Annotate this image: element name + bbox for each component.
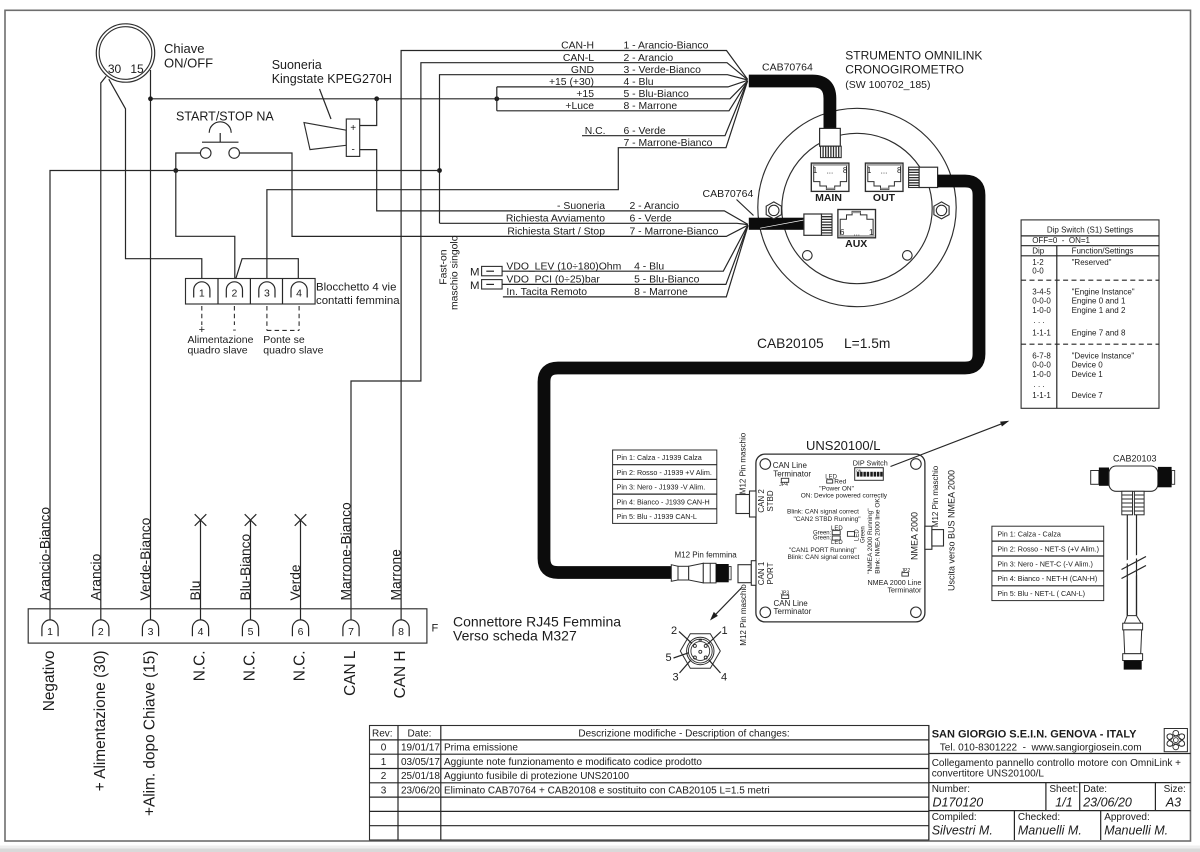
wire VDO_PCI (5 - Blu-Bianco) (502, 225, 748, 284)
svg-text:STRUMENTO OMNILINK: STRUMENTO OMNILINK (845, 49, 982, 63)
label Suoneria Kingstate KPEG270H (272, 58, 392, 86)
svg-text:2 - Arancio: 2 - Arancio (624, 53, 674, 64)
svg-text:VDO_LEV (10÷180)Ohm: VDO_LEV (10÷180)Ohm (506, 261, 621, 272)
dashed bridge pin3-pin4 (267, 329, 299, 331)
svg-text:Descrizione modifiche - Descri: Descrizione modifiche - Description of c… (578, 728, 789, 739)
svg-text:Chiave: Chiave (164, 41, 204, 56)
label CAN Line Terminator bottom (774, 599, 812, 616)
svg-text:Verso scheda M327: Verso scheda M327 (453, 628, 577, 644)
svg-text:2: 2 (381, 771, 387, 782)
svg-text:4: 4 (198, 626, 204, 638)
svg-text:Arancio-Bianco: Arancio-Bianco (38, 507, 53, 601)
wire +15 rail (5 - Blu-Bianco) (151, 81, 748, 99)
svg-text:Terminator: Terminator (887, 586, 922, 595)
svg-text:M12 Pin maschio: M12 Pin maschio (739, 432, 748, 494)
wire buzzer plus to +15 rail (360, 99, 377, 126)
connector pin 2 (93, 620, 109, 638)
cable CAB70764 top (749, 81, 830, 129)
wire key 15 to pin3 (150, 70, 152, 620)
svg-text:1: 1 (199, 288, 205, 300)
svg-text:0-0: 0-0 (1032, 267, 1044, 276)
M12 pin 2 label (671, 625, 692, 644)
dashed lead blocchetto pin2 (233, 306, 235, 325)
svg-text:7 - Marrone-Bianco: 7 - Marrone-Bianco (624, 138, 713, 149)
svg-text:3: 3 (148, 626, 154, 638)
label CAB20105 L=1.5m (757, 336, 890, 351)
svg-text:PORT: PORT (766, 562, 775, 584)
port CAN 2 STBD (736, 491, 756, 517)
screw hole bottom-left (760, 607, 771, 618)
svg-text:N.C.: N.C. (192, 651, 209, 682)
label NMEA 2000 Running rotated (867, 498, 882, 574)
svg-text:Blocchetto 4 vie: Blocchetto 4 vie (316, 282, 396, 294)
fast-on terminal M1 (470, 266, 502, 278)
svg-text:Pin 3: Nero - J1939 -V Alim.: Pin 3: Nero - J1939 -V Alim. (617, 483, 706, 492)
svg-text:quadro slave: quadro slave (263, 345, 323, 357)
svg-text:1-0-0: 1-0-0 (1032, 370, 1051, 379)
svg-text:Engine 1 and 2: Engine 1 and 2 (1072, 306, 1126, 315)
label CAN 2 STBD rotated (757, 489, 775, 513)
svg-text:CAB70764: CAB70764 (703, 188, 754, 200)
M12 pin 3 label (672, 660, 691, 684)
connector pin 7 (343, 620, 359, 638)
svg-text:LED: LED (831, 540, 843, 546)
LED red indicator (825, 475, 846, 486)
svg-text:N.C.: N.C. (242, 651, 259, 682)
svg-text:SAN GIORGIO S.E.I.N. GENOVA -: SAN GIORGIO S.E.I.N. GENOVA - ITALY (932, 729, 1137, 741)
svg-text:CAN L: CAN L (342, 650, 359, 696)
svg-text:. . .: . . . (1034, 316, 1045, 325)
svg-text:JP4: JP4 (779, 482, 788, 488)
svg-text:"Device Instance": "Device Instance" (1072, 352, 1135, 361)
blocchetto pin 4 (291, 282, 307, 300)
svg-text:Number:: Number: (932, 784, 970, 795)
svg-text:Green:: Green: (813, 536, 832, 542)
svg-text:19/01/17: 19/01/17 (401, 743, 440, 754)
connector pin 4 (192, 620, 208, 638)
svg-text:Dip: Dip (1032, 246, 1045, 255)
dashed lead blocchetto pin3 (266, 306, 268, 330)
svg-text:"Reserved": "Reserved" (1072, 258, 1112, 267)
label CAN1 PORT Running (787, 547, 859, 561)
svg-text:AUX: AUX (845, 238, 867, 250)
jumper JP3 (781, 591, 790, 599)
arrow DIP switch to settings table (891, 421, 1010, 467)
wire button left contact to negativo rail (176, 153, 201, 170)
svg-text:6: 6 (840, 228, 845, 237)
wire In. Tacita Remoto (8 - Marrone) (503, 226, 748, 297)
svg-text:Blink: NMEA 2000 line OK: Blink: NMEA 2000 line OK (875, 498, 882, 574)
svg-text:CAN 1: CAN 1 (757, 561, 766, 585)
svg-text:...: ... (827, 167, 834, 176)
connector pin 5 (242, 620, 258, 638)
pin table NET (992, 526, 1104, 600)
jumper JP2 (902, 568, 911, 576)
svg-text:Manuelli M.: Manuelli M. (1104, 824, 1168, 838)
svg-text:L=1.5m: L=1.5m (844, 336, 890, 351)
blocchetto pin 2 (226, 282, 242, 300)
svg-text:"CAN2 STBD Running": "CAN2 STBD Running" (793, 516, 861, 523)
svg-text:Terminator: Terminator (774, 607, 812, 616)
connector pin 6 (292, 620, 308, 638)
svg-text:Uscita verso BUS NMEA 2000: Uscita verso BUS NMEA 2000 (947, 470, 957, 591)
svg-text:7: 7 (348, 626, 354, 638)
svg-text:Rev:: Rev: (372, 728, 393, 739)
svg-text:Richiesta Avviamento: Richiesta Avviamento (506, 213, 605, 224)
svg-text:M: M (470, 267, 480, 279)
svg-text:CAN 2: CAN 2 (757, 489, 766, 513)
svg-text:8 - Marrone: 8 - Marrone (634, 287, 688, 298)
mounting hole bottom-right (903, 251, 913, 261)
svg-text:NMEA 2000: NMEA 2000 (910, 512, 920, 560)
wire N.C. 6 - Verde (582, 81, 748, 136)
wire VDO_LEV (4 - Blu) (502, 225, 748, 271)
leader CAB70764 left label (737, 200, 754, 216)
svg-text:+Alim. dopo Chiave (15): +Alim. dopo Chiave (15) (142, 651, 159, 817)
svg-text:30: 30 (108, 62, 122, 76)
key switch SW1 Chiave ON/OFF (96, 24, 154, 82)
wire N.C. pin4 with X (195, 514, 207, 620)
svg-text:6: 6 (298, 626, 304, 638)
svg-text:M12 Pin femmina: M12 Pin femmina (675, 551, 738, 560)
svg-text:Pin 5: Blu - NET-L ( CAN-L): Pin 5: Blu - NET-L ( CAN-L) (997, 589, 1085, 598)
svg-text:1 - Arancio-Bianco: 1 - Arancio-Bianco (624, 41, 709, 52)
mounting nut right (934, 202, 949, 219)
svg-text:"Engine Instance": "Engine Instance" (1072, 287, 1135, 296)
label Alimentazione quadro slave (188, 334, 254, 357)
wire jumper blocchetto pin2-pin4 (235, 259, 298, 282)
svg-text:Compiled:: Compiled: (932, 812, 977, 823)
wire +Luce tap vertical (496, 87, 498, 111)
jumper JP4 (779, 478, 788, 488)
RJ45 plug right (from OUT) (909, 167, 938, 187)
svg-text:Size:: Size: (1164, 784, 1186, 795)
cable CAB20105 (544, 181, 979, 573)
company logo (1164, 729, 1187, 752)
svg-text:1: 1 (813, 166, 818, 175)
svg-text:5 - Blu-Bianco: 5 - Blu-Bianco (624, 89, 689, 100)
svg-text:Pin 1: Calza - J1939 Calza: Pin 1: Calza - J1939 Calza (617, 453, 702, 462)
cable CAB70764 left (749, 218, 804, 230)
connector pin 3 (142, 620, 158, 638)
svg-text:CAB20105: CAB20105 (757, 336, 824, 351)
wire CAN-L (2 - Arancio) to pin7 (351, 63, 748, 620)
dashed lead blocchetto pin1 (201, 306, 203, 325)
CAB20103 M12 male connector bottom (1123, 616, 1143, 670)
svg-text:- Suoneria: - Suoneria (557, 201, 605, 212)
blocchetto pin 3 (259, 282, 275, 300)
mounting hole bottom-left (803, 251, 813, 261)
svg-text:maschio singolo: maschio singolo (450, 235, 461, 310)
wire +Luce (8 - Marrone) (497, 81, 748, 111)
wire negativo rail pin1 (50, 171, 440, 621)
svg-text:M12 Pin maschio: M12 Pin maschio (931, 465, 940, 527)
svg-text:CAN H: CAN H (392, 651, 409, 699)
svg-text:4 - Blu: 4 - Blu (624, 77, 654, 88)
svg-text:2 - Arancio: 2 - Arancio (630, 201, 680, 212)
svg-text:Device 7: Device 7 (1072, 391, 1104, 400)
RJ45 plug top (into MAIN) (820, 128, 842, 157)
svg-text:Dip Switch (S1) Settings: Dip Switch (S1) Settings (1047, 226, 1133, 235)
svg-text:Arancio: Arancio (88, 553, 103, 600)
svg-text:1-1-1: 1-1-1 (1032, 328, 1051, 337)
label STRUMENTO OMNILINK CRONOGIROMETRO (845, 49, 982, 92)
svg-text:23/06/20: 23/06/20 (1082, 796, 1132, 810)
svg-text:VDO_PCI (0÷25)bar: VDO_PCI (0÷25)bar (506, 275, 600, 286)
LED green CAN indicators (813, 526, 843, 546)
svg-text:Suoneria: Suoneria (272, 58, 322, 72)
svg-text:Blink: CAN signal correct: Blink: CAN signal correct (787, 509, 859, 516)
svg-text:1-1-1: 1-1-1 (1032, 391, 1051, 400)
svg-text:2: 2 (98, 626, 104, 638)
svg-text:6 - Verde: 6 - Verde (630, 213, 672, 224)
svg-text:convertitore UNS20100/L: convertitore UNS20100/L (932, 769, 1045, 780)
M12 pin 1 label (708, 625, 728, 644)
svg-text:+15 (+30): +15 (+30) (549, 77, 594, 88)
svg-text:4: 4 (721, 672, 727, 684)
svg-text:N.C.: N.C. (292, 651, 309, 682)
screw hole top-left (760, 459, 771, 470)
svg-text:OFF=0 - ON=1: OFF=0 - ON=1 (1032, 236, 1090, 245)
label NMEA 2000 Line Terminator (867, 578, 922, 595)
wire 7 - Marrone-Bianco to blocchetto pin3 (267, 81, 748, 282)
svg-text:0-0-0: 0-0-0 (1032, 360, 1051, 369)
RJ45 jack AUX (rotated) (838, 209, 876, 250)
svg-text:contatti femmina: contatti femmina (316, 295, 400, 307)
wire key 30 to blocchetto pin1 (109, 79, 202, 282)
svg-text:DIP Switch: DIP Switch (853, 459, 888, 468)
blocchetto pin 1 (194, 282, 210, 300)
svg-text:Pin 1: Calza - Calza: Pin 1: Calza - Calza (997, 530, 1061, 539)
svg-text:Function/Settings: Function/Settings (1072, 246, 1134, 255)
mounting nut left (766, 202, 781, 219)
dashed lead blocchetto pin4 (298, 306, 300, 330)
buzzer BZ1 body (346, 119, 359, 156)
svg-text:1-2: 1-2 (1032, 258, 1044, 267)
title block revision table (370, 726, 929, 841)
svg-text:D170120: D170120 (933, 796, 984, 810)
RJ45 plug left (into AUX) (804, 214, 832, 235)
M12 face detail (680, 634, 720, 669)
svg-text:Green: Green (861, 526, 867, 543)
svg-text:Sheet:: Sheet: (1049, 784, 1078, 795)
svg-text:6 - Verde: 6 - Verde (624, 126, 666, 137)
svg-text:7 - Marrone-Bianco: 7 - Marrone-Bianco (630, 227, 719, 238)
svg-text:Pin 3: Nero - NET-C (-V Alim.): Pin 3: Nero - NET-C (-V Alim.) (997, 559, 1092, 568)
svg-text:Device 1: Device 1 (1072, 370, 1104, 379)
title block company panel (929, 726, 1191, 841)
M12 female connector (671, 563, 731, 583)
label CAN Line Terminator top (773, 461, 812, 478)
svg-text:CAN-H: CAN-H (561, 41, 594, 52)
svg-text:8: 8 (897, 166, 902, 175)
svg-text:Pin 2: Rosso - J1939 +V Alim.: Pin 2: Rosso - J1939 +V Alim. (617, 468, 712, 477)
svg-text:15: 15 (130, 62, 144, 76)
cable assembly CAB20103 tee (1091, 466, 1175, 491)
svg-text:N.C.: N.C. (585, 126, 606, 137)
port CAN 1 PORT (738, 561, 756, 586)
svg-text:...: ... (853, 229, 860, 238)
svg-text:Prima emissione: Prima emissione (444, 743, 518, 754)
svg-text:A3: A3 (1165, 796, 1181, 810)
node negativo-GND junction (437, 168, 442, 173)
svg-text:Date:: Date: (408, 728, 432, 739)
CAB20103 thread columns (1122, 491, 1144, 515)
wire N.C. pin6 with X (295, 514, 307, 620)
svg-text:OUT: OUT (873, 192, 896, 204)
svg-text:1-0-0: 1-0-0 (1032, 306, 1051, 315)
svg-text:3 - Verde-Bianco: 3 - Verde-Bianco (624, 65, 702, 76)
wire button right contact Richiesta Start/Stop (7 - Marrone-Bianco) (240, 153, 748, 236)
svg-text:1: 1 (867, 166, 872, 175)
blocchetto 4 vie connector block (186, 279, 316, 305)
svg-text:Terminator: Terminator (773, 469, 811, 478)
svg-text:1: 1 (869, 228, 874, 237)
svg-text:+: + (350, 123, 356, 134)
svg-text:Marrone: Marrone (389, 549, 404, 601)
svg-text:Eliminato CAB70764 + CAB20108: Eliminato CAB70764 + CAB20108 e sostitui… (444, 786, 770, 797)
svg-text:Pin 4: Bianco - J1939 CAN-H: Pin 4: Bianco - J1939 CAN-H (617, 497, 710, 506)
svg-text:Date:: Date: (1083, 784, 1107, 795)
wire key 30 to pin2 (101, 76, 106, 620)
svg-text:Marrone-Bianco: Marrone-Bianco (339, 502, 354, 600)
svg-text:1: 1 (381, 757, 387, 768)
svg-text:CAB20103: CAB20103 (1113, 454, 1157, 464)
svg-text:03/05/17: 03/05/17 (401, 757, 440, 768)
instrument OmniLink cronogirometro bezel (758, 108, 956, 306)
svg-text:Blink: CAN signal correct: Blink: CAN signal correct (787, 554, 859, 561)
svg-text:Device 0: Device 0 (1072, 360, 1104, 369)
M12 pin 5 label (665, 652, 688, 664)
svg-text:Approved:: Approved: (1104, 812, 1150, 823)
svg-text:In. Tacita Remoto: In. Tacita Remoto (506, 287, 587, 298)
svg-text:Red: Red (834, 479, 846, 486)
svg-text:2: 2 (231, 288, 237, 300)
svg-text:8: 8 (843, 166, 848, 175)
buzzer BZ1 horn (304, 123, 346, 150)
svg-text:Richiesta Start / Stop: Richiesta Start / Stop (507, 227, 605, 238)
label Connettore RJ45 Femmina Verso scheda M327 (453, 614, 621, 644)
connector pin 8 (393, 620, 409, 638)
LED green NMEA indicator (847, 526, 866, 543)
svg-text:UNS20100/L: UNS20100/L (806, 438, 880, 453)
svg-text:+15: +15 (576, 89, 594, 100)
svg-text:Engine 7 and 8: Engine 7 and 8 (1072, 328, 1126, 337)
RJ45 jack OUT (865, 163, 903, 204)
DIP switch S1 (855, 468, 884, 481)
svg-text:M: M (470, 280, 480, 292)
wire +15 (+30) (4 - Blu) (497, 80, 748, 87)
wire GND (3 - Verde-Bianco) (440, 75, 748, 224)
svg-text:STBD: STBD (766, 490, 775, 512)
label CAN 1 PORT rotated (757, 561, 775, 585)
svg-text:Manuelli M.: Manuelli M. (1018, 824, 1082, 838)
svg-text:Aggiunto fusibile di protezion: Aggiunto fusibile di protezione UNS20100 (444, 771, 630, 782)
svg-text:CAN-L: CAN-L (563, 53, 594, 64)
svg-text:"NMEA 2000 Running": "NMEA 2000 Running" (867, 508, 874, 574)
wire CAN-H (1 - Arancio-Bianco) to pin8 (401, 51, 747, 621)
converter UNS20100/L box (756, 454, 925, 622)
svg-text:Engine 0 and 1: Engine 0 and 1 (1072, 296, 1126, 305)
svg-text:Kingstate KPEG270H: Kingstate KPEG270H (272, 72, 392, 86)
label Fast-on maschio singolo (439, 235, 461, 310)
CAB20103 cable with break (1122, 515, 1147, 616)
svg-text:25/01/18: 25/01/18 (401, 771, 440, 782)
svg-text:3: 3 (672, 672, 678, 684)
connector pin 1 (42, 620, 58, 638)
svg-text:Silvestri M.: Silvestri M. (932, 824, 993, 838)
svg-text:4: 4 (296, 288, 302, 300)
fast-on terminal M2 (470, 280, 502, 292)
screw hole bottom-right (911, 607, 922, 618)
svg-text:3-4-5: 3-4-5 (1032, 287, 1051, 296)
svg-text:-: - (352, 145, 355, 156)
pushbutton S1 START/STOP (200, 122, 239, 158)
svg-text:3: 3 (381, 786, 387, 797)
node negativo-button junction (173, 168, 178, 173)
dip switch settings table (1021, 220, 1159, 408)
svg-text:M12 Pin maschio: M12 Pin maschio (739, 584, 748, 646)
svg-text:ON/OFF: ON/OFF (164, 56, 213, 71)
svg-text:CRONOGIROMETRO: CRONOGIROMETRO (845, 63, 964, 77)
pin table J1939 (613, 450, 717, 523)
wire buzzer minus - Suoneria (2 - Arancio) (360, 150, 748, 225)
svg-text:(SW 100702_185): (SW 100702_185) (845, 79, 930, 91)
wire blocchetto pin2 from button rail (176, 171, 235, 282)
svg-text:Pin 4: Bianco - NET-H (CAN-H): Pin 4: Bianco - NET-H (CAN-H) (997, 574, 1097, 583)
svg-text:5 - Blu-Bianco: 5 - Blu-Bianco (634, 275, 699, 286)
svg-text:5: 5 (248, 626, 254, 638)
svg-text:0: 0 (381, 743, 387, 754)
node buzzer plus junction (374, 96, 379, 101)
port NMEA 2000 (925, 526, 944, 549)
svg-text:8: 8 (398, 626, 404, 638)
wire N.C. pin5 with X (245, 514, 257, 620)
wire Richiesta Avviamento (6 - Verde) (440, 223, 748, 224)
svg-text:...: ... (881, 167, 888, 176)
label Chiave ON/OFF (164, 41, 213, 71)
svg-text:MAIN: MAIN (815, 192, 842, 204)
label Ponte se quadro slave (263, 334, 323, 357)
leader suoneria label to horn (320, 89, 332, 119)
svg-text:Pin 2: Rosso - NET-S (+V Alim.: Pin 2: Rosso - NET-S (+V Alim.) (997, 544, 1099, 553)
svg-text:0-0-0: 0-0-0 (1032, 296, 1051, 305)
node +Luce junction (494, 96, 499, 101)
svg-text:5: 5 (665, 652, 671, 664)
label Blocchetto 4 vie contatti femmina (316, 282, 400, 308)
svg-text:3: 3 (264, 288, 270, 300)
svg-text:23/06/20: 23/06/20 (401, 786, 440, 797)
bottom connector RJ45 F shell (28, 609, 427, 643)
screw hole top-right (911, 459, 922, 470)
svg-text:1: 1 (721, 625, 727, 637)
svg-text:4 - Blu: 4 - Blu (634, 261, 664, 272)
svg-text:Pin 5: Blu - J1939 CAN-L: Pin 5: Blu - J1939 CAN-L (617, 512, 697, 521)
svg-text:Verde-Bianco: Verde-Bianco (138, 517, 153, 600)
svg-text:quadro slave: quadro slave (188, 345, 248, 357)
svg-text:Collegamento pannello controll: Collegamento pannello controllo motore c… (932, 758, 1181, 769)
svg-text:Checked:: Checked: (1018, 812, 1060, 823)
arrow M12 maschio to face detail (710, 588, 742, 621)
label Blink CAN2 (787, 509, 861, 523)
RJ45 jack MAIN (811, 163, 849, 204)
svg-text:+Luce: +Luce (565, 101, 594, 112)
svg-text:START/STOP NA: START/STOP NA (176, 110, 274, 124)
svg-text:. . .: . . . (1034, 380, 1045, 389)
svg-text:"CAN1 PORT Running": "CAN1 PORT Running" (789, 547, 857, 554)
svg-text:+ Alimentazione (30): + Alimentazione (30) (92, 651, 109, 792)
svg-text:2: 2 (671, 625, 677, 637)
